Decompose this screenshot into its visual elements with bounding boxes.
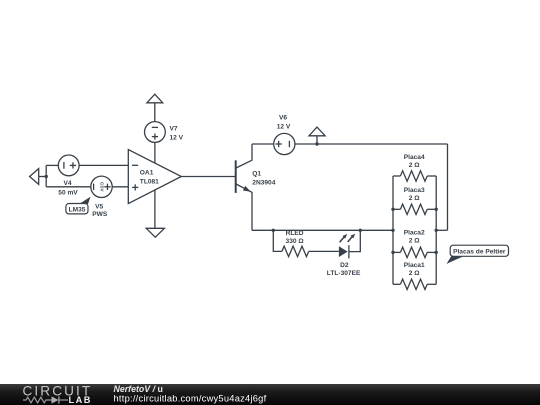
wire right side down — [447, 144, 449, 230]
resistor Placa1 — [393, 262, 436, 290]
svg-text:http://circuitlab.com/cwy5u4az: http://circuitlab.com/cwy5u4az4j6gf — [114, 393, 267, 403]
svg-text:2N3904: 2N3904 — [252, 179, 275, 186]
voltage source V4 — [58, 155, 79, 197]
wire rail to left bus dot — [391, 229, 394, 232]
resistor Placa3 — [393, 187, 436, 215]
node dot branch RLED — [272, 229, 275, 232]
wire flag to junction — [39, 176, 47, 178]
wire Q1 collector up — [251, 144, 253, 161]
LED D2 — [327, 234, 361, 278]
svg-text:Q1: Q1 — [252, 170, 261, 177]
resistor Placa2 — [393, 230, 436, 258]
wire Q1 emitter down — [251, 192, 253, 230]
vee flag below op-amp — [146, 228, 164, 237]
svg-text:2 Ω: 2 Ω — [409, 195, 420, 202]
wire V4 to op-amp — [79, 164, 128, 166]
svg-text:LAB: LAB — [69, 395, 92, 405]
transistor Q1 — [236, 160, 276, 193]
ground flag left — [30, 169, 39, 185]
svg-text:2 Ω: 2 Ω — [409, 162, 420, 169]
resistor RLED — [282, 230, 309, 256]
svg-text:LTL-307EE: LTL-307EE — [327, 270, 361, 277]
voltage source V6 — [274, 114, 295, 154]
wire RLED to D2 — [309, 250, 339, 252]
svg-text:CSV: CSV — [100, 182, 105, 192]
voltage source V5 — [91, 176, 112, 218]
node dot branch LED — [359, 229, 362, 232]
wire to V4 — [46, 164, 58, 166]
svg-text:OA1: OA1 — [140, 169, 154, 176]
node dots Placa2 — [391, 251, 394, 254]
ground pin wire op-amp to VEE — [154, 190, 156, 228]
svg-text:330 Ω: 330 Ω — [286, 238, 305, 245]
voltage source V7 — [145, 122, 184, 143]
svg-text:TL081: TL081 — [140, 178, 159, 185]
svg-text:Placas de Peltier: Placas de Peltier — [453, 248, 506, 255]
svg-text:PWS: PWS — [92, 211, 108, 218]
svg-text:D2: D2 — [340, 262, 349, 269]
svg-text:2 Ω: 2 Ω — [409, 238, 420, 245]
svg-text:12 V: 12 V — [277, 124, 291, 131]
right bus — [435, 176, 437, 284]
wire branch down to RLED — [273, 230, 282, 251]
wire input bus vertical — [45, 165, 47, 186]
wire emitter rail to left bus — [252, 229, 393, 231]
svg-text:12 V: 12 V — [170, 134, 184, 141]
wire junction to V5 — [46, 186, 91, 188]
callout Placas de Peltier — [447, 245, 509, 264]
svg-text:V6: V6 — [279, 114, 287, 121]
wire D2 to up branch — [349, 230, 360, 251]
resistor Placa4 — [393, 154, 436, 181]
node junction dot left — [45, 175, 48, 178]
wire V6 to right corner — [295, 143, 448, 145]
wire V5 to op-amp — [112, 186, 128, 188]
node dot right bus feed — [435, 229, 438, 232]
logo CIRCUIT LAB — [23, 384, 93, 405]
op-amp OA1 — [128, 150, 181, 204]
svg-text:Placa4: Placa4 — [404, 154, 425, 161]
left bus — [392, 176, 394, 284]
svg-text:2 Ω: 2 Ω — [409, 270, 420, 277]
wire collector rail to V6 — [252, 143, 274, 145]
node dot vcc stub — [315, 142, 318, 145]
svg-text:LM35: LM35 — [69, 206, 86, 213]
power pin wire V7 to op-amp — [154, 142, 156, 163]
svg-text:V7: V7 — [170, 126, 178, 133]
svg-text:Placa1: Placa1 — [404, 262, 425, 269]
vcc flag right — [309, 127, 325, 144]
wire op-amp output to Q1 base — [181, 176, 235, 178]
svg-text:Placa3: Placa3 — [404, 187, 425, 194]
vcc flag V7 — [147, 94, 163, 121]
svg-text:V5: V5 — [95, 203, 103, 210]
svg-text:V4: V4 — [63, 180, 71, 187]
svg-text:50 mV: 50 mV — [58, 190, 78, 197]
callout LM35 — [66, 197, 91, 214]
svg-text:Placa2: Placa2 — [404, 230, 425, 237]
node dots Placa3 — [391, 208, 394, 211]
svg-text:RLED: RLED — [286, 230, 304, 237]
wire corner to right bus — [436, 229, 447, 231]
